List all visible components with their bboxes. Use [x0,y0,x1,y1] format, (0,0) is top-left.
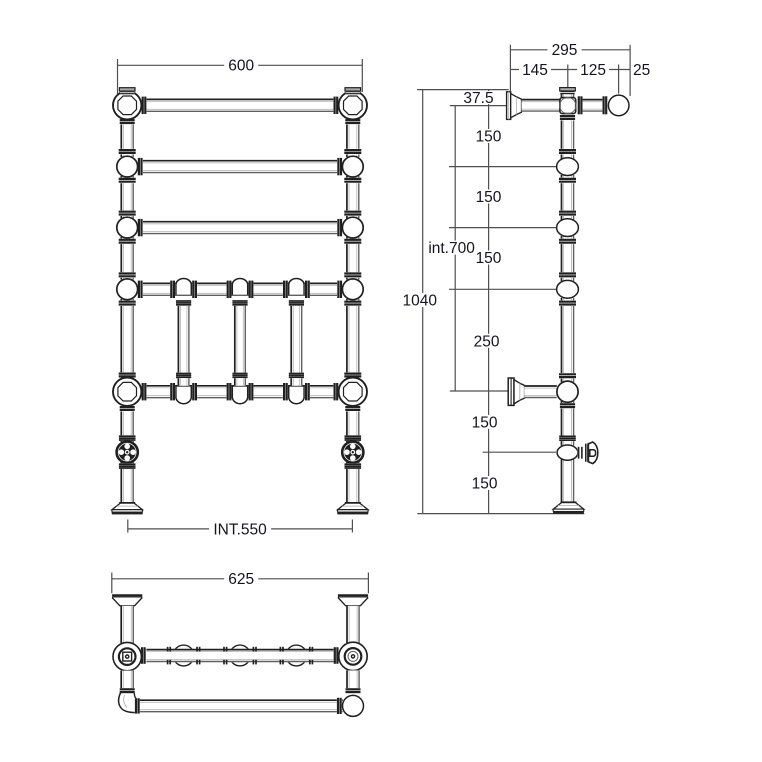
front view: rail 2 [143,160,337,173]
svg-text:150: 150 [472,476,498,493]
side view: dimension 295 line [510,49,630,51]
side view: dimension text 37.5 [460,91,498,104]
side view: dimension text 150 (fourth) [469,415,501,429]
side view: lower wall flange cone [514,380,525,404]
side view: towel-bar end ball [608,95,629,116]
front view: spindle 3 stub above rail5 [291,378,303,386]
plan view: right arm collar [346,688,361,694]
front view: spindle 1 top collar [176,300,191,306]
front view: right post collar below rail5 corner [345,406,360,412]
side view: post pipe segments [561,119,574,159]
side view: dimension text 145 [519,62,551,76]
side view: cross fitting body at top [560,98,576,114]
front view: rail 3 right collar [337,219,342,236]
plan view: rail tick marks at spindle 1 [167,647,169,652]
side view: 150-series dimension line [488,90,490,514]
side view: lower wall flange plate [508,378,514,405]
front view: left post collar above rail2 ball [119,149,136,155]
front view: spindle 3 pipe [291,306,303,373]
front view: left post collar above rail3 ball [119,210,136,216]
front view: right top corner cap [345,88,361,91]
front view: spindle 3 bottom collar [289,373,304,379]
svg-text:150: 150 [476,129,502,146]
front view: right post collar above rail5 corner [344,372,361,378]
side view: cross fitting top cap [560,88,576,91]
side view: dimension text 150 (fifth) [469,476,501,490]
plan view: right wall flange (top band) [338,595,368,598]
side view: post stub above cross fitting [561,93,574,99]
front view: spindle 1 pipe [178,306,190,373]
front view: spindle 3 top collar [289,300,304,306]
side view: valve body ball [557,445,578,460]
side view: collar above rail3 ball [559,210,576,216]
front view: spindle 2 tee on rail 4 [232,279,247,296]
front view: right valve wheel [342,442,363,463]
front view: left valve wheel [117,442,138,463]
front view: left valve upper collar [119,435,136,441]
side view: collar below rail3 ball [559,239,576,245]
front view: left rail3 ball tee [117,217,138,238]
svg-text:150: 150 [476,250,502,267]
front view: right valve upper collar [345,435,362,441]
side view: valve stem [578,447,584,459]
front view: rail 5 collars flanking spindle 3 [283,383,288,400]
plan view: dimension 625 left extension line [111,573,113,594]
side view: valve knob plate [585,444,588,462]
plan view: left wall flange (top band) [112,595,142,598]
front view: right post collar below rail2 ball [344,178,361,184]
plan view: front rail right end ball [343,695,364,716]
svg-text:625: 625 [228,571,254,588]
front view: dimension text 600 [224,58,258,72]
front view: left rail4 ball tee [117,279,138,300]
side view: collar below bracket ball [560,403,575,409]
side view: top bracket arm pipe [522,99,560,112]
front view: right rail3 ball tee [342,217,363,238]
plan view: left post joint circle [113,642,141,670]
side view: wall flange plate (top bracket) [507,92,511,120]
side view: lower bracket ball at post [557,381,578,402]
front view: rail 2 left collar [138,158,143,175]
side view: dimension text int.700 [428,241,476,255]
plan view: left arm pipe to front rail [121,671,134,689]
front view: right top corner ball fitting [339,91,367,119]
side view: foot [553,502,583,509]
side view: top shared tick line [417,89,509,91]
side view: collar below cross fitting [560,115,575,121]
plan view: left elbow to front rail [119,693,136,713]
front view: right post collar above rail2 ball [344,149,361,155]
front view: right post collar below rail3 ball [344,239,361,245]
side view: dimension 145/125/25 line [510,69,630,71]
front view: rail 4 collars flanking spindle 2 [227,281,232,298]
side view: collar below rail2 ball [559,178,576,184]
front view: INT.550 left extension tick [127,520,129,533]
front view: spindle 2 tee on rail 5 [232,386,247,404]
front view: INT.550 dimension line [128,528,353,530]
side view: towel-bar stub pipe [583,99,603,112]
front view: left top corner cap [119,88,135,91]
front view: dimension 600 left extension line [117,59,119,94]
front view: rail 2 right collar [337,158,342,175]
front view: rail 3 [143,221,337,234]
side view: collar above rail2 ball [559,149,576,155]
side view: dimension text 250 [471,334,503,348]
side view: valve level tick line [483,451,556,453]
front view: spindle 2 stub above rail5 [234,378,246,386]
front view: right post collar below rail4 ball [344,300,361,306]
side view: rail1 level tick line (37.5) [450,105,507,107]
side view: dimension text 150 (first) [473,129,505,143]
plan view: front rail (top towel bar seen from above) [139,700,343,713]
front view: right rail5 corner ball fitting [339,378,367,406]
svg-text:125: 125 [580,62,606,79]
front view: spindle 2 bottom collar [232,373,247,379]
front view: spindle 1 bottom collar [176,373,191,379]
side view: rail2 ball [557,158,579,176]
front view: left post pipe segments [121,120,134,158]
side view: collar above bracket ball [559,373,576,379]
side view: extension line at post centre [567,65,569,88]
svg-text:150: 150 [476,189,502,206]
side view: bracket level tick line [450,390,508,392]
plan view: left bracket arm pipe [121,606,134,643]
front view: left post collar above rail4 ball [119,272,136,278]
front view: top rail (rail 1) [147,99,334,112]
plan view: dimension 625 right extension line [367,573,369,594]
plan view: left arm collar [120,688,135,694]
front view: rail 5 (lower frame bottom rail) [147,385,334,398]
svg-text:37.5: 37.5 [463,90,493,107]
front view: right valve lower collar [345,463,362,469]
front view: dimension text INT.550 [209,522,271,536]
front view: dimension 600 line [118,64,363,66]
plan view: middle rail left collar [141,647,146,664]
front view: right post collar below top corner [345,119,360,125]
svg-text:25: 25 [633,62,650,79]
side view: valve collar above [559,436,576,442]
front view: left post collar below rail2 ball [119,178,136,184]
side view: collar below rail4 ball [559,300,576,306]
plan view: spindle 2 circle [230,645,251,666]
front view: INT.550 right extension tick [351,520,353,533]
side view: dimension text 125 [577,62,609,76]
svg-text:250: 250 [474,333,500,350]
front view: rail 5 left collar [142,383,147,400]
plan view: middle rail [146,649,338,662]
plan view: dimension 625 line [112,578,369,580]
side view: overall 1040 dimension line [422,90,424,514]
front view: spindle 1 tee on rail 5 [176,386,191,404]
plan view: front rail left end collar [135,698,140,713]
plan view: left wall flange taper [112,598,142,606]
front view: left rail5 corner ball fitting [113,378,141,406]
plan view: spindle 1 circle [173,645,194,666]
side view: int.700 dimension line [454,106,456,391]
svg-text:150: 150 [472,415,498,432]
side view: dimension text 150 (second) [473,190,505,204]
svg-text:600: 600 [228,57,254,74]
front view: rail 4 collars flanking spindle 1 [170,281,175,298]
front view: left post collar below rail3 ball [119,239,136,245]
front view: rail 5 collars flanking spindle 2 [227,383,232,400]
side view: collar above rail4 ball [559,272,576,278]
front view: left post collar below rail5 corner [120,406,135,412]
side view: rail2 level tick line [449,166,559,168]
front view: left post collar above rail5 corner [119,372,136,378]
front view: left post collar below top corner [120,119,135,125]
plan view: front rail right collar [337,698,342,714]
front view: spindle 1 tee on rail 4 [176,279,191,296]
front view: spindle 1 stub above rail5 [178,378,190,386]
front view: rail 3 left collar [138,219,143,236]
side view: dimension text 295 [548,43,582,57]
front view: rail 5 right collar [333,383,338,400]
front view: rail 4 right collar [337,281,342,298]
plan view: dimension text 625 [224,572,258,586]
svg-text:int.700: int.700 [428,240,475,257]
side view: extension line at ball outer edge [629,45,631,96]
plan view: right wall flange taper [338,598,368,606]
svg-text:1040: 1040 [402,293,437,310]
front view: spindle 2 top collar [232,300,247,306]
plan view: middle rail right collar [334,647,339,664]
plan view: rail tick marks at spindle 3 [279,647,281,652]
side view: floor line [417,513,584,515]
front view: right rail2 ball tee [342,156,363,177]
front view: spindle 3 tee on rail 5 [289,386,304,404]
front view: left top corner ball fitting [113,91,141,119]
plan view: spindle 3 circle [286,645,307,666]
front view: rail 1 left collar [142,97,147,114]
side view: collar right of cross fitting [578,96,583,114]
side view: collar before end ball [602,96,607,114]
plan view: rail tick marks at spindle 2 [223,647,225,652]
plan view: right bracket arm pipe [346,606,359,643]
front view: left rail2 ball tee [117,156,138,177]
side view: extension line at wall plate [509,45,511,91]
front view: left foot [112,503,142,510]
front view: right rail4 ball tee [342,279,363,300]
svg-text:295: 295 [552,42,578,59]
svg-text:145: 145 [522,62,548,79]
front view: rail 5 collars flanking spindle 1 [170,383,175,400]
front view: right post collar above rail4 ball [344,272,361,278]
side view: lower bracket arm pipe [524,385,557,398]
front view: dimension 600 right extension line [361,59,363,92]
side view: extension line at ball centre [618,65,620,94]
front view: rail 1 right collar [333,97,338,114]
plan view: right post joint circle [339,642,367,670]
front view: right post pipe segments [346,120,359,158]
side view: valve knob body [588,442,597,464]
front view: right foot [338,503,368,510]
front view: spindle 2 pipe [234,306,246,373]
side view: rail4 level tick line [449,288,559,290]
side view: dimension text 1040 [401,293,439,307]
front view: left post collar below rail4 ball [119,300,136,306]
svg-text:INT.550: INT.550 [213,522,267,539]
front view: rail 4 collars flanking spindle 3 [283,281,288,298]
front view: rail 4 left collar [138,281,143,298]
front view: rail 4 (lower frame top rail) [143,283,337,296]
front view: spindle 3 tee on rail 4 [289,279,304,296]
side view: wall flange cone (top bracket) [511,94,522,118]
side view: rail4 ball [557,280,579,298]
front view: left valve lower collar [119,463,136,469]
side view: rail3 ball [557,219,579,237]
side view: rail3 level tick line [449,227,559,229]
plan view: right arm pipe to front rail [346,670,359,689]
side view: dimension text 150 (third) [473,251,505,265]
front view: right post collar above rail3 ball [344,210,361,216]
